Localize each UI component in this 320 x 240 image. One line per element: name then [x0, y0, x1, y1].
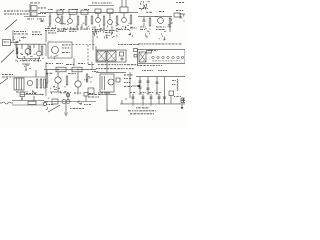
- wire: [35, 70, 37, 77]
- component cluster right: [91, 76, 92, 78]
- resistor R7: [103, 16, 105, 25]
- tube V2: [68, 19, 73, 24]
- heater winding coil: [177, 79, 178, 91]
- tick: [106, 109, 108, 112]
- label sound3: [176, 9, 178, 12]
- capacitor C1: [41, 20, 44, 22]
- wire tuner bus: [14, 43, 46, 45]
- deflection coils circles: [62, 100, 66, 104]
- wire: [29, 4, 31, 17]
- wire: [85, 96, 87, 102]
- wire: [65, 102, 67, 112]
- resistor R3: [61, 16, 63, 24]
- enclosure tuner unit: [48, 42, 72, 58]
- small box in block: [120, 52, 124, 56]
- component cluster audio out: [164, 38, 165, 40]
- resistor R15: [36, 79, 38, 88]
- label L6: [46, 72, 48, 75]
- component cluster stage4: [80, 26, 81, 28]
- capacitor C3: [16, 41, 19, 43]
- flyback transformer T4: [100, 74, 114, 92]
- discriminator box: [174, 13, 180, 17]
- small box hv: [116, 78, 120, 82]
- label rf amp: [32, 31, 34, 34]
- tube socket V15: [177, 56, 179, 58]
- damper box: [88, 88, 94, 94]
- resistor R11: [169, 18, 171, 27]
- small box right of block: [134, 49, 138, 52]
- winding bars flyback: [101, 76, 103, 90]
- label under chassis: [137, 64, 139, 67]
- coil L5: [107, 9, 113, 13]
- wire tube drop: [57, 83, 59, 92]
- wire drop with arrow: [181, 104, 183, 108]
- label interlock 2: [88, 96, 91, 99]
- component cluster stage5: [96, 29, 98, 30]
- wire: [170, 96, 172, 104]
- label grid 4: [84, 8, 87, 11]
- component cluster audio: [170, 22, 171, 24]
- resistor R17: [44, 79, 46, 88]
- wire: [27, 44, 29, 48]
- label small: [92, 70, 93, 73]
- label right: [84, 103, 85, 106]
- label stage5 values: [92, 28, 93, 31]
- component cluster ratio det: [145, 35, 147, 37]
- wire lead diagonal: [1, 50, 14, 63]
- wire: [67, 97, 69, 102]
- wire: [77, 72, 79, 81]
- wire: [18, 58, 40, 60]
- label values: [38, 7, 40, 10]
- coil L2: [69, 9, 77, 14]
- label channel 1: [62, 44, 65, 47]
- label channel 2: [62, 47, 64, 50]
- wire AGC line: [88, 5, 114, 7]
- block shield left: [97, 51, 106, 61]
- label chassis caption: [138, 43, 141, 46]
- wire diagonal: [48, 105, 60, 112]
- figure caption line3: [130, 113, 132, 114]
- tube V4: [108, 20, 113, 25]
- capacitor C2: [143, 19, 146, 21]
- label stage3 values: [69, 28, 71, 31]
- wire: [16, 44, 18, 58]
- wire: [21, 97, 23, 101]
- component cluster det bottom: [116, 35, 118, 37]
- tube socket V12: [162, 56, 164, 58]
- wire: [45, 30, 47, 42]
- capacitor C8: [156, 81, 159, 83]
- wire: [50, 91, 60, 93]
- label grid 1: [48, 8, 49, 11]
- label horiz 3: [66, 63, 69, 66]
- small box right of block 2: [134, 55, 137, 58]
- label heater: [172, 79, 175, 82]
- label det: [140, 26, 142, 29]
- wire: [20, 94, 44, 96]
- coil L6: [56, 67, 66, 72]
- tube V19: [55, 77, 61, 83]
- label stage1 values: [45, 27, 46, 30]
- capacitor C10: [132, 96, 135, 98]
- label horiz 2: [56, 62, 59, 65]
- label vert values: [16, 91, 19, 94]
- label to crt 2: [158, 69, 160, 72]
- figure caption line1: [136, 107, 138, 108]
- width coil: [28, 101, 36, 104]
- wire drops: [15, 44, 17, 48]
- ground: [64, 112, 68, 114]
- tube socket V16: [181, 56, 183, 58]
- label sound1: [146, 11, 148, 14]
- winding bars: [16, 78, 18, 90]
- filter branch 2: [147, 77, 149, 94]
- label mixer: [33, 59, 36, 62]
- wire drops: [94, 26, 96, 33]
- wire B+ bus: [40, 12, 138, 14]
- component cluster horiz osc: [64, 90, 66, 92]
- component cluster vert out: [42, 94, 44, 95]
- wire: [69, 14, 71, 18]
- label hv values 2: [124, 77, 126, 80]
- label hv values 1: [124, 74, 126, 77]
- capacitor C5: [139, 86, 142, 88]
- label converter: [14, 30, 15, 33]
- interlock plug: [2, 102, 11, 104]
- component squiggle: [129, 34, 131, 36]
- resistor R14: [41, 46, 43, 55]
- resistor R12: [16, 48, 18, 54]
- wire: [33, 96, 35, 101]
- wire AC bus: [120, 103, 185, 105]
- small circle in block: [121, 58, 123, 60]
- wire bus: [24, 16, 46, 18]
- label focus: [26, 92, 28, 95]
- tick below bus C: [150, 104, 152, 106]
- small box: [84, 93, 88, 97]
- tube V9: [52, 47, 59, 54]
- label stage2 values: [57, 28, 60, 31]
- resistor R13: [29, 46, 31, 54]
- label sound2: [159, 10, 162, 13]
- label: [89, 92, 91, 95]
- tube V17: [27, 80, 32, 85]
- wire: [180, 13, 185, 15]
- coil L7: [72, 67, 82, 72]
- component cluster under tube: [54, 56, 56, 58]
- cap branch A: [132, 94, 134, 104]
- label ion trap: [74, 92, 76, 95]
- resistor R16: [40, 79, 42, 88]
- focus control box: [20, 92, 25, 97]
- label channel 3: [62, 51, 65, 54]
- label hv values 4: [124, 85, 126, 88]
- component cluster matching: [24, 37, 26, 39]
- tube V8: [37, 51, 42, 56]
- block shield right: [107, 51, 116, 61]
- label on chassis edge: [148, 49, 150, 52]
- tube socket V14: [172, 56, 174, 58]
- small circle: [43, 102, 46, 105]
- capacitor C4: [139, 80, 142, 82]
- wire dashed to block: [72, 44, 96, 46]
- chassis outline: [138, 50, 186, 64]
- label yoke text: [2, 73, 4, 76]
- wire antenna lead-in: [5, 20, 17, 31]
- wire: [91, 62, 93, 70]
- label R1: [27, 18, 30, 21]
- wire: [155, 16, 158, 18]
- cap branch D: [158, 94, 160, 104]
- label L7: [68, 72, 71, 75]
- box on bus: [52, 99, 58, 104]
- wire: [100, 94, 116, 96]
- wire diagonal corner: [0, 78, 8, 84]
- socket labels: [152, 60, 154, 63]
- wire: [11, 42, 18, 44]
- component cluster right end: [44, 104, 46, 106]
- label T1: [30, 2, 33, 5]
- wire: [143, 17, 145, 20]
- label stage8 values: [130, 27, 133, 30]
- transformer T1: [31, 6, 37, 11]
- tick below bus A: [132, 104, 134, 106]
- wire horiz bus: [44, 69, 96, 71]
- resistor R6: [91, 16, 93, 24]
- component cluster stage1: [49, 25, 51, 27]
- label top corner: [176, 1, 178, 4]
- wire: [169, 27, 171, 32]
- component cluster stage7: [124, 27, 126, 28]
- label caution line2: [96, 67, 98, 70]
- wire: [132, 85, 136, 87]
- component cluster stage2: [63, 29, 65, 30]
- label to crt 1: [142, 69, 143, 72]
- capacitor C7: [147, 87, 150, 89]
- component cluster audio 2: [183, 14, 185, 16]
- terminal block outline: [96, 50, 126, 62]
- label near ballast: [174, 95, 175, 98]
- wire: [73, 58, 75, 66]
- filter branch 1: [139, 77, 141, 94]
- label caution line1: [98, 63, 100, 66]
- wire channel top: [12, 100, 44, 102]
- label stage4 values: [80, 28, 83, 31]
- label grid 3: [72, 8, 73, 11]
- label V6 values: [156, 26, 159, 29]
- capacitor C12: [150, 96, 153, 98]
- ion trap component: [66, 93, 70, 97]
- component cluster sound takeoff: [144, 8, 146, 9]
- ballast box: [169, 91, 174, 96]
- tube V3: [96, 18, 101, 23]
- tube V20: [75, 81, 81, 87]
- label block note: [118, 43, 120, 46]
- coil L3: [81, 10, 88, 14]
- capacitor C13: [158, 96, 161, 98]
- label grid 2: [60, 8, 62, 11]
- wire: [123, 13, 125, 18]
- tick below bus B: [142, 104, 144, 106]
- diode arrow: [136, 84, 140, 87]
- label flyback bottom: [98, 92, 100, 95]
- component cluster stage6: [111, 24, 113, 25]
- label antenna note: [4, 11, 6, 12]
- wire: [106, 92, 108, 111]
- resistor R18: [46, 74, 48, 83]
- label hv values 3: [124, 81, 126, 84]
- wire tube drop 2: [77, 87, 79, 94]
- tube V21 hv rectifier: [108, 79, 114, 85]
- tube socket V10: [152, 56, 154, 58]
- wire main bus: [44, 101, 96, 103]
- resistor R19: [66, 76, 68, 85]
- wire: [57, 72, 59, 77]
- label cap values D: [156, 91, 158, 94]
- wire section divider: [45, 62, 47, 96]
- capacitor C9: [163, 96, 166, 98]
- terminal box antenna: [3, 40, 11, 46]
- wire: [12, 30, 14, 42]
- label cap values A: [130, 91, 132, 94]
- wire: [109, 13, 111, 19]
- wire: [49, 13, 51, 16]
- cap branch B: [142, 94, 144, 104]
- tube V5: [122, 18, 127, 23]
- resistor R4: [77, 16, 79, 25]
- wire: [38, 44, 40, 51]
- wire to block: [92, 32, 94, 50]
- wire channel bottom: [12, 104, 44, 106]
- label under bus: [46, 103, 48, 106]
- component cluster tuner parts: [42, 57, 44, 59]
- label cap values B: [140, 91, 142, 94]
- cap branch C: [150, 94, 152, 104]
- vert osc top component: [22, 63, 30, 65]
- wire: [121, 0, 123, 7]
- resistor R5: [85, 16, 87, 25]
- small box on top edge: [147, 51, 152, 54]
- power transformer hatched: [139, 52, 146, 62]
- component cluster agc bottom: [93, 33, 95, 35]
- wire: [57, 14, 59, 17]
- coil L4: [95, 9, 101, 13]
- resistor R20: [86, 74, 88, 82]
- label near ground: [70, 107, 72, 110]
- wire bus: [12, 76, 46, 78]
- vert output transformer: [14, 78, 24, 90]
- filter branch 3: [156, 77, 158, 94]
- capacitor C6: [147, 80, 150, 82]
- small stacked boxes: [181, 98, 183, 100]
- label AGC: [92, 2, 94, 5]
- label horiz 5: [88, 63, 91, 66]
- wire flyback top: [96, 72, 126, 74]
- wire long vertical: [164, 77, 166, 104]
- wire: [129, 72, 131, 98]
- label C1: [37, 18, 38, 21]
- figure caption line2: [128, 110, 131, 111]
- branch end ticks: [139, 93, 142, 95]
- label sound takeoff: [139, 7, 142, 10]
- wire B+ bus: [136, 76, 185, 78]
- label horiz 1: [46, 62, 48, 65]
- wire: [0, 102, 2, 104]
- label stage7 values: [118, 28, 121, 31]
- resistor R8: [116, 16, 118, 24]
- label ant: [4, 41, 7, 44]
- label cap values C: [148, 91, 151, 94]
- wire: [46, 70, 48, 74]
- tick marks: [121, 100, 123, 104]
- tube V7: [25, 49, 31, 55]
- wire: [97, 13, 99, 17]
- wire: [107, 110, 118, 112]
- label interlock 1: [88, 93, 91, 96]
- wire sound bus: [138, 16, 172, 18]
- component cluster sync bottom: [105, 36, 107, 38]
- resistor R9: [130, 15, 132, 24]
- label fine tune: [48, 32, 51, 35]
- label osc adj: [20, 59, 21, 62]
- tube socket V11: [157, 56, 159, 58]
- wire: [45, 44, 47, 56]
- resistor R10: [149, 18, 151, 26]
- resistor R2: [49, 16, 51, 24]
- tube V6: [158, 18, 164, 24]
- label horiz 4: [78, 62, 80, 65]
- junction dot: [57, 69, 58, 70]
- component bits: [24, 65, 25, 67]
- label horiz values: [60, 91, 62, 94]
- tube socket V13: [167, 56, 169, 58]
- component on bus: [80, 103, 82, 104]
- tube V1: [56, 18, 61, 23]
- transformer T3: [120, 7, 128, 13]
- transformer T2: [31, 12, 37, 16]
- label stage6 values: [105, 29, 108, 32]
- coil L1: [57, 10, 63, 14]
- wire dashed vertical: [87, 45, 89, 64]
- capacitor C11: [142, 96, 145, 98]
- component cluster stage3: [70, 27, 72, 29]
